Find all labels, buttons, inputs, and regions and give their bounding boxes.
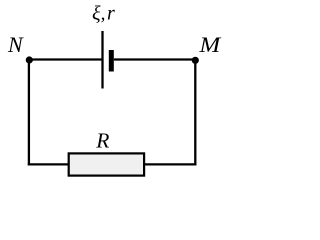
wire: left vertical segment from node N down — [28, 59, 30, 166]
resistor R body — [69, 153, 144, 175]
svg-text:ξ, r: ξ, r — [92, 3, 115, 25]
svg-text:M: M — [198, 33, 221, 57]
wire: bottom-right segment from resistor — [144, 163, 197, 165]
wire: right vertical segment from node M down — [194, 59, 196, 166]
node M junction dot — [192, 57, 199, 64]
wire: top-right segment from battery to node M — [114, 58, 196, 60]
battery cell (EMF source with internal resistance): long positive plate — [101, 31, 103, 89]
wire: top-left segment from node N to battery — [29, 58, 103, 60]
svg-text:R: R — [95, 128, 109, 152]
svg-text:N: N — [7, 32, 24, 57]
battery cell: short thick negative plate — [109, 50, 114, 72]
node N junction dot — [26, 56, 33, 63]
wire: bottom-left segment to resistor — [28, 163, 69, 165]
